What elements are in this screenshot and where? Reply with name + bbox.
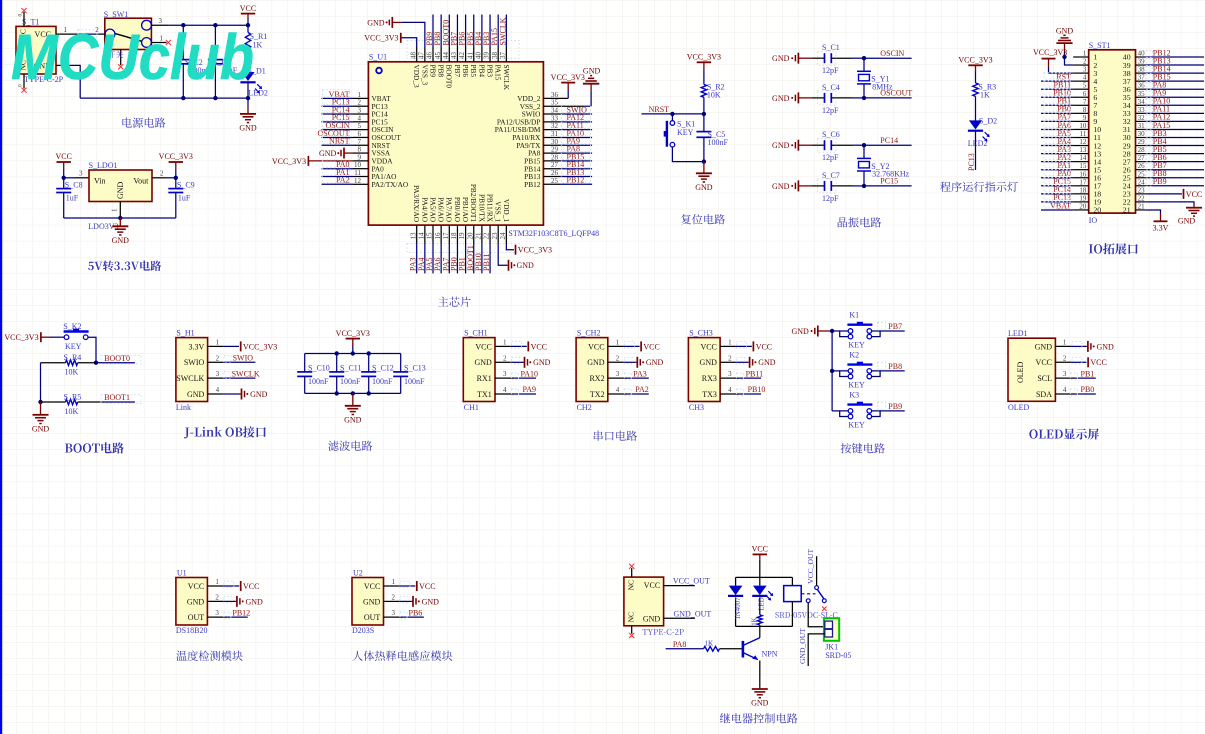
svg-text:9: 9: [1083, 114, 1087, 122]
svg-text:VBAT: VBAT: [1050, 201, 1071, 210]
svg-text:34: 34: [551, 107, 559, 115]
title 5V转3.3V电路: [88, 260, 161, 271]
resistor S_R5 10K: [41, 392, 142, 416]
svg-text:34: 34: [1138, 98, 1146, 106]
regulator S_LDO1 LDO3V3: [88, 161, 152, 231]
svg-text:LED2: LED2: [968, 139, 988, 148]
svg-text:GND_OUT: GND_OUT: [798, 628, 807, 664]
connector JK1 SRD-05: [824, 618, 852, 660]
svg-text:2: 2: [728, 354, 732, 362]
svg-text:GND: GND: [363, 597, 381, 606]
ST1 pin 33 PA11: [1123, 105, 1204, 118]
svg-text:33: 33: [1138, 106, 1146, 114]
junction OSCOUT: [862, 96, 866, 100]
capacitor S_C9 1uF: [168, 178, 194, 218]
svg-text:PA9: PA9: [523, 385, 537, 394]
svg-text:37: 37: [1138, 74, 1146, 82]
svg-text:PA10: PA10: [521, 369, 539, 378]
connector S_CH2 body: [576, 329, 608, 413]
svg-text:SWCLK: SWCLK: [176, 374, 204, 383]
wire GND to ST1 pin2: [1065, 57, 1074, 65]
svg-text:GND: GND: [1097, 342, 1115, 351]
svg-text:S_R4: S_R4: [64, 353, 82, 362]
resistor 1K (base): [704, 639, 743, 651]
svg-text:3: 3: [616, 370, 620, 378]
svg-text:PB4: PB4: [477, 65, 486, 78]
svg-text:PB12: PB12: [232, 608, 250, 617]
svg-text:S_LDO1: S_LDO1: [89, 161, 118, 170]
svg-text:7: 7: [1083, 98, 1087, 106]
crystal S_Y1 8MHz: [857, 58, 893, 98]
svg-text:SWCLK: SWCLK: [502, 65, 511, 91]
wire R4 to R5 left rail: [40, 363, 42, 402]
junction rail C3: [213, 96, 217, 100]
svg-text:VCC_3V3: VCC_3V3: [364, 34, 398, 43]
diode 1N4007: [728, 577, 743, 626]
svg-text:1: 1: [111, 208, 119, 212]
svg-text:1: 1: [216, 339, 220, 347]
svg-text:KEY: KEY: [677, 128, 694, 137]
svg-text:21: 21: [1138, 202, 1146, 210]
relay loop top rail: [736, 576, 793, 578]
svg-text:28: 28: [1138, 146, 1146, 154]
H1 pin 3 SWCLK: [208, 369, 260, 379]
svg-text:S_K2: S_K2: [63, 322, 81, 331]
svg-text:3: 3: [1083, 66, 1087, 74]
svg-text:OUT: OUT: [188, 613, 205, 622]
svg-text:12: 12: [1079, 138, 1087, 146]
U1 pin 37 SWCLK: [498, 15, 510, 91]
ST1 pin 29 PB4: [1123, 137, 1204, 150]
title 程序运行指示灯: [940, 182, 1018, 192]
connector S_CH1 body: [463, 329, 495, 413]
U1 pin 24 VDD_1 to VCC_3V3: [499, 199, 552, 255]
U1 pin 36 VDD_2 to VCC_3V3: [517, 73, 585, 103]
svg-text:Link: Link: [176, 403, 191, 412]
ground GND (S_C6): [772, 140, 812, 151]
svg-text:12pF: 12pF: [822, 153, 839, 162]
display LED1 OLED body: [1008, 329, 1055, 412]
svg-text:31: 31: [1138, 122, 1146, 130]
svg-text:8: 8: [358, 146, 362, 154]
junction filter bottom C12: [367, 391, 371, 395]
svg-text:16: 16: [1079, 170, 1087, 178]
title BOOT电路: [65, 442, 124, 453]
ST1 pin 40 PB12: [1123, 48, 1204, 61]
CH2 pin 1 to VCC: [608, 339, 660, 352]
svg-text:S_C6: S_C6: [822, 130, 840, 139]
H1 pin 4 to GND: [208, 386, 268, 399]
svg-text:SCL: SCL: [1037, 374, 1052, 383]
svg-text:PA3: PA3: [633, 369, 647, 378]
svg-text:28: 28: [551, 153, 559, 161]
U1 pin 41 PB5: [466, 15, 478, 78]
svg-text:PA8: PA8: [673, 640, 687, 649]
SW1 pin 3: [151, 17, 168, 25]
U1 pin 7 NRST: [322, 136, 391, 149]
dotted selection band top: [407, 41, 519, 59]
svg-text:PB11/RX: PB11/RX: [485, 194, 494, 223]
LED1 pin 3 PB1: [1055, 369, 1095, 379]
crystal S_Y2 32.768KHz: [857, 145, 910, 186]
U1 pin 15 PA5/AO: [425, 197, 437, 273]
svg-text:S_C1: S_C1: [822, 43, 840, 52]
MCU U1 STM32F103C8T6 body: [368, 53, 599, 239]
svg-text:GND: GND: [643, 614, 661, 623]
power bottom rail: [80, 97, 248, 99]
capacitor S_C3 1uF: [208, 25, 238, 98]
svg-text:4: 4: [1063, 386, 1067, 394]
svg-text:1K: 1K: [980, 91, 990, 100]
ground GND (ST1 top): [1056, 27, 1074, 58]
capacitor S_C2 100nF: [176, 25, 211, 98]
svg-text:GND: GND: [187, 390, 205, 399]
junction NRST/R2: [702, 112, 706, 116]
title OLED显示屏: [1029, 428, 1099, 439]
ST1 pin 15: [1041, 161, 1101, 174]
svg-text:3: 3: [392, 609, 396, 617]
svg-text:5: 5: [1083, 82, 1087, 90]
U1 pin 43 PB7: [449, 15, 461, 78]
svg-text:39: 39: [1138, 58, 1146, 66]
sheet border left: [0, 0, 2, 734]
svg-text:GND: GND: [772, 94, 790, 103]
key S_K2 KEY: [55, 322, 97, 363]
svg-text:6: 6: [358, 130, 362, 138]
svg-text:U1: U1: [177, 569, 187, 578]
switch S_SW1: [104, 10, 152, 50]
U1 pin 38 PA15: [490, 15, 502, 81]
svg-text:PB2/BOOT1: PB2/BOOT1: [469, 184, 478, 222]
svg-text:VCC: VCC: [1186, 190, 1202, 199]
U1 pin 32 PA11/USB/DM: [495, 121, 592, 134]
wire net PB7: [878, 322, 905, 331]
svg-text:35: 35: [551, 99, 559, 107]
svg-text:VCC_3V3: VCC_3V3: [958, 56, 992, 65]
svg-text:PB8: PB8: [888, 362, 902, 371]
svg-text:RX2: RX2: [589, 374, 604, 383]
U1 pin 40 PB4: [474, 15, 486, 78]
svg-text:VCC: VCC: [643, 342, 659, 351]
ground GND LDO: [112, 218, 130, 245]
U1 pin 46 PB9: [425, 15, 437, 78]
CH1 pin 2 to GND: [495, 354, 551, 367]
svg-text:SWIO: SWIO: [184, 358, 205, 367]
U1 pin 45 PB8: [433, 15, 445, 78]
svg-text:S_ST1: S_ST1: [1089, 41, 1111, 50]
key S_K1 KEY: [664, 114, 704, 162]
svg-text:RX3: RX3: [702, 374, 717, 383]
svg-text:PB9: PB9: [888, 402, 902, 411]
capacitor S_C8 1uF: [56, 178, 82, 218]
ST1 pin 32 PA12: [1123, 113, 1204, 126]
svg-text:14: 14: [1079, 154, 1087, 162]
svg-text:3: 3: [358, 107, 362, 115]
U1 pin 47 VSS_3 to GND: [367, 17, 429, 86]
T1 pin 1 (VCC): [56, 26, 78, 34]
wire net GND_OUT: [664, 609, 712, 618]
U1 pin 31 PA10/RX: [512, 129, 592, 142]
title 主芯片: [438, 297, 471, 307]
junction ST1 pin1: [1062, 55, 1066, 59]
keys left rail: [831, 331, 833, 411]
title 复位电路: [681, 214, 725, 224]
svg-text:2: 2: [215, 594, 219, 602]
connector TYPE-C-2P (relay power in): [624, 577, 684, 635]
ST1 pin 1: [1073, 50, 1097, 62]
wire relay common to JK1 pin1: [808, 603, 825, 627]
svg-text:PB7: PB7: [888, 322, 902, 331]
title J-Link OB接口: [184, 426, 266, 438]
capacitor S_C5 100nF: [696, 130, 728, 162]
svg-text:PB9: PB9: [428, 65, 437, 78]
svg-text:PB6: PB6: [409, 608, 423, 617]
svg-text:3: 3: [1063, 370, 1067, 378]
svg-text:PB7: PB7: [453, 65, 462, 78]
svg-text:VDD_1: VDD_1: [502, 199, 511, 222]
svg-text:32.768KHz: 32.768KHz: [872, 169, 910, 178]
svg-text:GND: GND: [474, 358, 492, 367]
svg-text:33: 33: [551, 114, 559, 122]
U1 pin 26 PB13: [524, 168, 592, 181]
svg-text:40: 40: [1138, 50, 1146, 58]
svg-text:18: 18: [1079, 186, 1087, 194]
ST1 pin 25 PB8: [1123, 169, 1204, 182]
junction PC15: [862, 184, 866, 188]
svg-text:3.3V: 3.3V: [1153, 223, 1169, 232]
U1 pin 33 PA12/USB/DP: [497, 113, 592, 126]
ST1 pin 23 VCC: [1123, 186, 1202, 199]
power port VCC_3V3 (BOOT): [4, 332, 54, 342]
U1 pin 34 SWIO: [522, 105, 592, 118]
svg-text:KEY: KEY: [848, 341, 865, 350]
svg-text:S_C8: S_C8: [65, 181, 83, 190]
svg-text:GND: GND: [758, 358, 776, 367]
ST1 pin 14: [1041, 153, 1101, 166]
svg-text:GND: GND: [32, 424, 50, 433]
svg-text:12pF: 12pF: [822, 106, 839, 115]
svg-text:VCC: VCC: [240, 4, 256, 13]
svg-text:GND: GND: [646, 358, 664, 367]
ST1 pin 3: [1073, 66, 1097, 78]
relay coil SRD-05VDC-SL-C: [775, 577, 837, 626]
svg-text:25: 25: [551, 177, 559, 185]
capacitor S_C1 12pF: [812, 43, 864, 75]
svg-text:3: 3: [216, 370, 220, 378]
U1 pin 5 OSCIN: [322, 121, 395, 134]
capacitor S_C10 100nF: [297, 354, 330, 394]
svg-text:1uF: 1uF: [66, 194, 79, 203]
svg-text:1: 1: [392, 578, 396, 586]
svg-text:VCC_3V3: VCC_3V3: [1033, 48, 1067, 57]
svg-text:1: 1: [1063, 339, 1067, 347]
svg-text:S_K1: S_K1: [677, 119, 695, 128]
LED S_D1: [240, 66, 267, 98]
svg-text:TX3: TX3: [702, 390, 717, 399]
U1 pin 30 PA9/TX: [516, 136, 592, 149]
svg-text:U2: U2: [353, 569, 363, 578]
T1 top NC stub: [18, 8, 27, 26]
U1 pin 8 VSSA to GND: [319, 146, 391, 159]
svg-text:2: 2: [1083, 58, 1087, 66]
svg-text:PB1: PB1: [1081, 369, 1095, 378]
U1 pin 22 PB11/RX: [482, 194, 494, 274]
title 滤波电路: [328, 441, 372, 451]
relay contact dashes: [801, 593, 815, 595]
resistor S_R3 1K: [973, 82, 996, 99]
svg-text:Vin: Vin: [94, 176, 106, 185]
SW1 pin 1 (n.c.): [151, 35, 171, 46]
svg-text:VCC: VCC: [188, 582, 204, 591]
svg-text:PA7/AO: PA7/AO: [445, 197, 454, 222]
svg-text:NRST: NRST: [649, 105, 670, 114]
U1 pin 28 PB15: [524, 152, 592, 165]
svg-text:VCC: VCC: [243, 582, 259, 591]
power port VCC (relay): [752, 545, 768, 578]
svg-text:12: 12: [354, 177, 362, 185]
LED (relay indicator): [752, 577, 773, 614]
svg-text:1: 1: [503, 339, 507, 347]
U1 pin 17 PA7/AO: [441, 197, 453, 273]
svg-text:3: 3: [728, 370, 732, 378]
svg-text:NC: NC: [626, 612, 635, 622]
svg-text:35: 35: [1138, 90, 1146, 98]
CH3 pin 1 to VCC: [720, 339, 772, 352]
svg-text:KEY: KEY: [65, 342, 82, 351]
junction LDO Vout: [174, 176, 178, 180]
SW1 comment 开关: [108, 51, 123, 58]
CH2 pin 4 PA2: [608, 385, 649, 395]
svg-text:PB0/AO: PB0/AO: [453, 197, 462, 222]
svg-text:JK1: JK1: [825, 642, 838, 651]
svg-text:24: 24: [1138, 178, 1146, 186]
svg-text:11: 11: [1080, 130, 1087, 138]
svg-text:STM32F103C8T6_LQFP48: STM32F103C8T6_LQFP48: [508, 229, 599, 238]
svg-text:3: 3: [503, 370, 507, 378]
relay loop bottom rail: [736, 625, 793, 627]
svg-text:VCC: VCC: [1036, 358, 1052, 367]
junction NRST/K1: [670, 112, 674, 116]
svg-text:VCC: VCC: [756, 342, 772, 351]
H1 pin 1 to VCC_3V3: [208, 339, 278, 352]
svg-text:11: 11: [354, 169, 361, 177]
power port VCC: [240, 4, 256, 25]
wire R3 to D2: [975, 96, 977, 120]
svg-text:PB1/AO: PB1/AO: [461, 197, 470, 222]
CH2 pin 3 PA3: [608, 369, 649, 379]
svg-text:Vout: Vout: [133, 176, 149, 185]
svg-text:VCC: VCC: [644, 581, 660, 590]
svg-text:VCC: VCC: [1090, 358, 1106, 367]
ST1 pin 18: [1041, 185, 1101, 198]
svg-text:PC14: PC14: [880, 136, 898, 145]
junction C3 top: [213, 23, 217, 27]
junction VCC/R1: [246, 23, 250, 27]
svg-text:GND: GND: [751, 699, 769, 708]
svg-text:2: 2: [1063, 354, 1067, 362]
svg-text:17: 17: [1079, 178, 1087, 186]
LED1 pin 4 PB0: [1055, 385, 1095, 395]
svg-text:MCUclub: MCUclub: [11, 21, 254, 93]
svg-text:KEY: KEY: [848, 380, 865, 389]
U1 pin 27 PB14: [524, 160, 592, 173]
T1 pin 2 (GND): [56, 57, 70, 65]
U1 pin 3 PB12: [207, 608, 250, 618]
svg-text:CH3: CH3: [689, 403, 704, 412]
ST1 pin 8: [1041, 105, 1097, 118]
svg-text:VCC_3V3: VCC_3V3: [687, 53, 721, 62]
SW1 bottom stub A: [118, 50, 123, 70]
svg-text:10K: 10K: [65, 407, 79, 416]
title 按键电路: [841, 443, 885, 453]
junction OSCIN: [862, 56, 866, 60]
svg-text:36: 36: [1138, 82, 1146, 90]
U1 pin 4 PC15: [322, 113, 389, 126]
wire net PC15: [864, 177, 912, 186]
svg-text:VCC: VCC: [588, 342, 604, 351]
ST1 pin 19: [1041, 193, 1101, 206]
svg-text:20: 20: [1093, 206, 1101, 215]
junction LDO GND: [118, 216, 122, 220]
svg-text:S_C9: S_C9: [177, 181, 195, 190]
wire net PB8: [878, 362, 905, 371]
U1 pin 48 VDD_3 to VCC_3V3: [364, 33, 421, 88]
svg-text:2: 2: [358, 99, 362, 107]
key K3 KEY: [832, 391, 880, 430]
wire net OSCIN: [864, 49, 912, 58]
wire VCC_OUT vertical: [806, 549, 816, 586]
LDO pin 3: [64, 170, 89, 178]
U1 pin 2 to GND: [207, 594, 263, 607]
U1 pin 1 to VCC: [207, 578, 259, 591]
ground GND filter: [344, 393, 362, 424]
svg-text:29: 29: [551, 146, 559, 154]
svg-text:8: 8: [1083, 106, 1087, 114]
CH1 pin 4 PA9: [495, 385, 536, 395]
svg-text:TX1: TX1: [477, 390, 492, 399]
ground GND (S_C1): [772, 53, 812, 64]
U1 pin 6 OSCOUT: [317, 129, 401, 142]
svg-text:VCC_3V3: VCC_3V3: [4, 333, 38, 342]
ST1 pin 39 PB13: [1123, 56, 1204, 69]
U2 pin 2 to GND: [384, 594, 440, 607]
svg-text:100nF: 100nF: [404, 377, 425, 386]
ground GND (S_C7): [772, 180, 812, 191]
svg-text:S_R5: S_R5: [64, 392, 82, 401]
capacitor S_C11 100nF: [329, 354, 361, 394]
title IO拓展口: [1089, 243, 1138, 254]
svg-text:SWCLK: SWCLK: [232, 369, 260, 378]
power port VCC_3V3 (reset): [687, 53, 721, 85]
power port VCC (LDO in): [55, 152, 71, 178]
svg-text:BOOT0: BOOT0: [445, 65, 454, 89]
svg-text:S_C10: S_C10: [308, 364, 330, 373]
U1 pin 9 VDDA to VCC_3V3: [272, 153, 393, 166]
svg-text:0: 0: [18, 14, 24, 17]
svg-text:12pF: 12pF: [822, 66, 839, 75]
U2 pin 1 to VCC: [384, 578, 436, 591]
svg-text:NPN: NPN: [762, 650, 778, 659]
title 电源电路: [122, 117, 165, 127]
U1 pin 10 PA0: [322, 160, 385, 173]
ground GND (keys): [791, 326, 832, 337]
junction filter top C12: [367, 351, 371, 355]
key K2 KEY: [832, 351, 880, 390]
svg-text:PB10/TX: PB10/TX: [477, 194, 486, 223]
ST1 pin 20: [1041, 201, 1101, 214]
LDO bottom rail: [64, 217, 176, 219]
U1 pin 44 BOOT0: [441, 15, 453, 89]
